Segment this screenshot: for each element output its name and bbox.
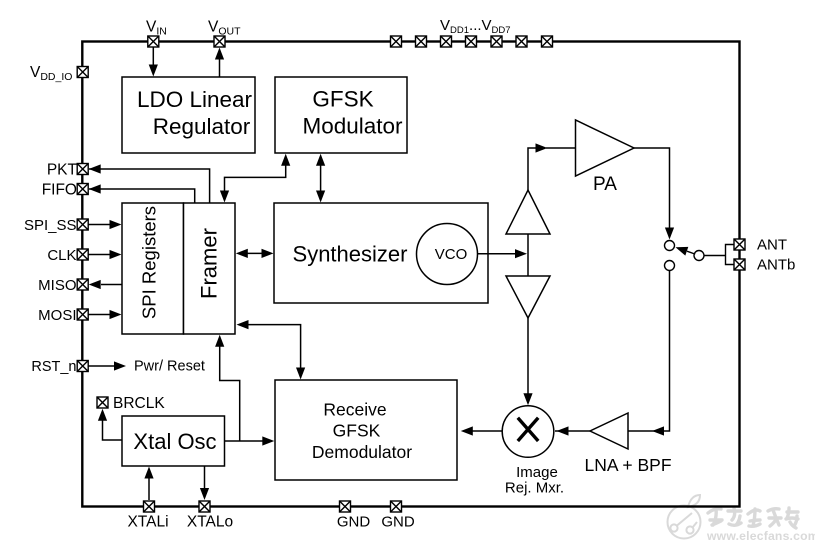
svg-text:PA: PA bbox=[593, 174, 617, 195]
svg-text:Regulator: Regulator bbox=[153, 114, 251, 139]
svg-text:Synthesizer: Synthesizer bbox=[293, 242, 408, 267]
svg-text:Xtal Osc: Xtal Osc bbox=[133, 429, 216, 454]
svg-text:GFSK: GFSK bbox=[312, 87, 373, 112]
svg-text:SPI_SS: SPI_SS bbox=[24, 217, 77, 234]
svg-text:Demodulator: Demodulator bbox=[312, 442, 412, 462]
svg-text:Receive: Receive bbox=[323, 400, 386, 420]
svg-text:RST_n: RST_n bbox=[31, 359, 76, 375]
svg-text:ANT: ANT bbox=[757, 237, 787, 254]
svg-text:PKT: PKT bbox=[47, 162, 78, 179]
svg-text:www.elecfans.com: www.elecfans.com bbox=[706, 529, 815, 543]
svg-text:Rej. Mxr.: Rej. Mxr. bbox=[505, 480, 564, 497]
svg-text:Framer: Framer bbox=[197, 228, 222, 299]
svg-text:GFSK: GFSK bbox=[333, 421, 381, 441]
svg-text:Pwr/ Reset: Pwr/ Reset bbox=[134, 359, 205, 375]
svg-text:XTALi: XTALi bbox=[127, 514, 168, 531]
svg-text:XTALo: XTALo bbox=[187, 514, 233, 531]
svg-text:FIFO: FIFO bbox=[42, 182, 77, 199]
svg-text:Modulator: Modulator bbox=[302, 114, 403, 139]
svg-text:GND: GND bbox=[381, 514, 415, 531]
svg-text:MOSI: MOSI bbox=[38, 307, 76, 324]
svg-text:LDO Linear: LDO Linear bbox=[137, 87, 253, 112]
svg-text:Image: Image bbox=[516, 464, 558, 481]
svg-text:MISO: MISO bbox=[38, 277, 76, 294]
svg-text:SPI Registers: SPI Registers bbox=[139, 206, 160, 319]
svg-text:LNA + BPF: LNA + BPF bbox=[584, 455, 671, 475]
svg-text:BRCLK: BRCLK bbox=[113, 395, 165, 412]
svg-text:GND: GND bbox=[337, 514, 371, 531]
svg-text:CLK: CLK bbox=[47, 247, 76, 264]
svg-text:VCO: VCO bbox=[435, 246, 468, 263]
svg-text:ANTb: ANTb bbox=[757, 257, 795, 274]
